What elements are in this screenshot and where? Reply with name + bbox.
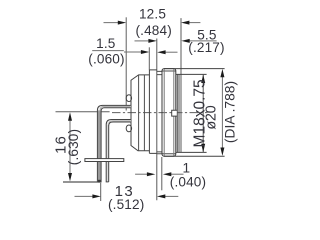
step section top/bottom: [149, 70, 156, 153]
dimension 16 top extension line: [56, 111, 110, 113]
dimension 1.5 left arrow: [124, 51, 144, 53]
dimension 13 left extension line: [100, 183, 102, 201]
svg-text:1.5: 1.5: [96, 36, 115, 51]
svg-text:12.5: 12.5: [139, 7, 166, 22]
dia 20 dimension line with arrows: [221, 75, 223, 149]
dimension 16 vertical line with arrows: [69, 119, 71, 175]
wire pin 2 inner edge: [109, 122, 131, 182]
can interior seam lines: [138, 75, 140, 151]
svg-text:(.484): (.484): [135, 23, 171, 38]
thread top edge + M18 extension: [176, 73, 207, 75]
wire pin 2 fill band: [108, 121, 131, 125]
wire pin 1 inner edge: [101, 108, 131, 182]
svg-text:(.512): (.512): [108, 197, 144, 212]
svg-text:ø20: ø20: [204, 105, 220, 129]
dimension 1 right extension line: [161, 157, 163, 190]
dimension 12.5 extension line left: [125, 17, 127, 110]
flange disc: [162, 69, 176, 157]
svg-text:(DIA .788): (DIA .788): [222, 81, 237, 143]
terminal bump upper: [126, 95, 131, 102]
wire pin 2 outer edge: [106, 120, 131, 182]
thread face / M18 dimension line: [202, 74, 204, 152]
can body outline: [131, 70, 149, 153]
neck edges between step and flange: [157, 71, 162, 151]
flange inner silhouette lines: [163, 69, 165, 156]
svg-text:(.060): (.060): [88, 52, 124, 67]
dimension 1 right arrow: [169, 173, 184, 175]
dimension 12.5 line right arrow: [187, 22, 200, 24]
dimension 1.5 extension line left: [148, 47, 150, 70]
centerline: [112, 112, 208, 114]
flange bottom edge + dia20 extension: [164, 155, 225, 157]
wire pin 1 fill band: [99, 107, 131, 111]
mounting plate crossbar: [85, 159, 124, 162]
dimension 12.5 line left arrow: [104, 22, 121, 24]
dimension 5.5 line right arrow + text underline: [188, 40, 217, 42]
dimension extension line x=181 (flange face, shared 12.5/5.5): [180, 18, 182, 152]
dimension 1 left arrow: [135, 173, 149, 175]
dimension 16 bottom extension line: [63, 181, 102, 183]
svg-text:(.217): (.217): [188, 40, 224, 55]
svg-text:(.630): (.630): [66, 129, 81, 165]
flange top edge + dia20 extension: [164, 68, 225, 70]
dimension 1.5 right arrow: [164, 51, 178, 53]
dimension 13 left arrow: [75, 195, 95, 197]
terminal bump lower: [126, 125, 131, 132]
key rectangle on centerline: [172, 110, 178, 116]
wire pin 1 outer edge: [97, 105, 130, 182]
svg-text:(.040): (.040): [170, 174, 206, 189]
thread bottom edge + M18 extension: [176, 151, 207, 153]
dimension 13 right arrow: [163, 195, 178, 197]
dimension 1.5 label fraction line: [92, 50, 124, 52]
washer stack lines: [177, 74, 179, 152]
dimension 5.5 line left arrow: [135, 40, 151, 42]
dimension extension line x=157 (shared 1.5/5.5/1/13): [156, 39, 158, 201]
